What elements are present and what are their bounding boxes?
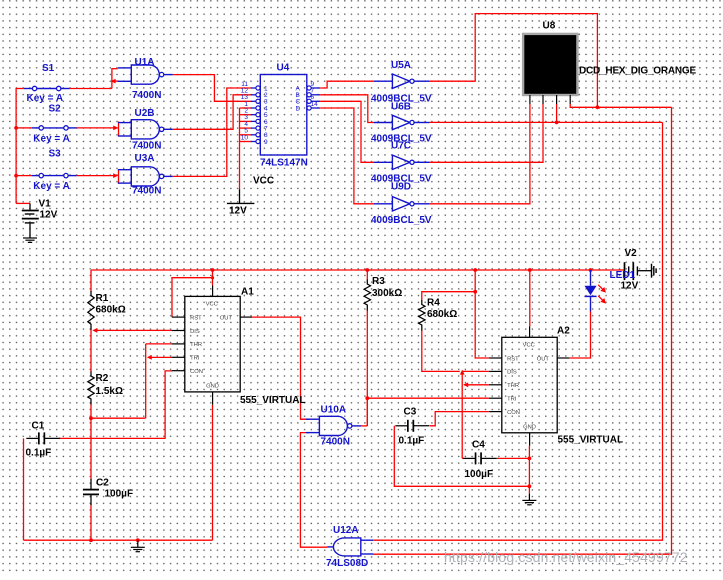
svg-text:7400N: 7400N — [321, 437, 350, 448]
wire A2 CON to C3 — [429, 412, 488, 426]
junction U10A out R3 TRI — [365, 396, 369, 400]
label V1 — [39, 199, 52, 210]
junction rail A2 VCC — [528, 268, 532, 272]
label R3 300k — [372, 288, 402, 299]
svg-text:CON: CON — [507, 410, 520, 416]
wire U1A output to U4 pin3 — [173, 75, 251, 102]
nand gate U10A — [306, 416, 361, 435]
wire R3 bottom to U10A out — [360, 310, 367, 426]
label R4 — [427, 298, 440, 309]
svg-text:TRI: TRI — [507, 397, 517, 403]
inverter U6B — [374, 115, 430, 129]
svg-text:100µF: 100µF — [465, 469, 494, 480]
svg-text:https://blog.csdn.net/weixin_4: https://blog.csdn.net/weixin_45499772 — [444, 549, 688, 565]
inverter U7C — [374, 155, 430, 169]
junction S2 on left bus — [14, 126, 18, 130]
label U8 — [543, 21, 556, 32]
U4 inner pin names — [264, 85, 301, 145]
wire A2 GND down — [528, 446, 530, 494]
arrow A1 DIS junction — [92, 328, 97, 333]
svg-text:680kΩ: 680kΩ — [96, 305, 126, 316]
label C1 0.1uF — [26, 448, 52, 459]
resistor R4 — [419, 300, 425, 331]
label C4 100uF — [465, 469, 494, 480]
svg-text:74LS08D: 74LS08D — [326, 558, 368, 569]
switch S1 — [24, 86, 70, 90]
watermark — [444, 549, 688, 565]
wire VCC rail — [91, 269, 625, 271]
wire right bus B down — [373, 107, 671, 554]
svg-text:12V: 12V — [40, 210, 58, 221]
svg-text:R4: R4 — [427, 298, 440, 309]
junction S3 on left bus — [14, 174, 18, 178]
label R3 — [372, 276, 385, 287]
wire U9D output to U8 pin1 — [430, 104, 530, 204]
label U10A — [321, 405, 347, 416]
label C3 0.1uF — [399, 436, 425, 447]
wire U8 pin1 lead — [556, 104, 558, 122]
label C4 — [472, 440, 485, 451]
U8 pins — [530, 95, 570, 104]
IC A2 555 timer body — [489, 326, 569, 445]
ground below bottom loop — [131, 540, 145, 552]
svg-text:LED1: LED1 — [610, 270, 636, 281]
junction rail R3 — [365, 268, 369, 272]
wire U1A input tie — [112, 68, 119, 88]
svg-text:A1: A1 — [241, 287, 254, 298]
nand gate U2B — [118, 120, 173, 139]
svg-text:S1: S1 — [42, 63, 55, 74]
svg-text:U10A: U10A — [321, 405, 347, 416]
svg-text:680kΩ: 680kΩ — [427, 309, 457, 320]
junction rail A1 VCC — [211, 268, 215, 272]
nand gate U1A — [118, 65, 173, 84]
wire A2 DIS THR vertical — [461, 371, 463, 458]
label R4 680k — [427, 309, 457, 320]
svg-text:U5A: U5A — [391, 60, 411, 71]
label Key = A (S3) — [33, 181, 70, 192]
wire A1 RST loop — [172, 278, 213, 317]
svg-text:V1: V1 — [39, 199, 52, 210]
wire U10A out riser — [366, 398, 368, 426]
label R2 — [96, 373, 109, 384]
wire U4 C output to U7C — [320, 101, 374, 162]
label U1A — [135, 57, 155, 68]
resistor R2 — [88, 372, 94, 405]
label C1 — [32, 421, 45, 432]
power VCC symbol — [227, 189, 255, 203]
wire S2 row — [16, 127, 116, 129]
display U8 DCD_HEX_DIG_ORANGE — [523, 34, 577, 95]
wire R2-THR link — [91, 344, 172, 418]
svg-text:1.5kΩ: 1.5kΩ — [96, 386, 123, 397]
label U7C — [391, 141, 411, 152]
label U2B 7400N — [132, 141, 161, 152]
inverter U5A — [374, 74, 430, 88]
svg-text:U7C: U7C — [391, 141, 411, 152]
wire U4 B output to U6B — [320, 95, 374, 123]
label S2 — [49, 104, 62, 115]
label R1 — [96, 293, 109, 304]
svg-text:D: D — [296, 105, 301, 112]
wire A2 DIS — [462, 370, 489, 372]
wire U10A in1 stub — [301, 418, 310, 420]
wire S1-S2-S3 left vertical bus to V1 — [16, 88, 30, 203]
label V1 12V — [40, 210, 58, 221]
LED1 emission arrows — [598, 285, 606, 304]
label C2 100uF — [105, 489, 134, 500]
label U12A 74LS08D — [326, 558, 368, 569]
junction U8 pin4 net with U5A wire — [596, 105, 600, 109]
junction U8 pin3 net — [555, 121, 559, 125]
svg-text:C4: C4 — [472, 440, 485, 451]
ground right of V2 — [652, 264, 657, 278]
label V2 12V — [621, 281, 639, 292]
label U6B — [391, 102, 411, 113]
label U5A 4009BCL_5V — [371, 94, 432, 105]
svg-text:74LS147N: 74LS147N — [260, 158, 308, 169]
svg-text:7400N: 7400N — [132, 141, 161, 152]
nand gate U3A — [118, 167, 173, 186]
label U4 74LS147N — [260, 158, 308, 169]
wire U4 pins4-9 bus to VCC — [240, 108, 251, 189]
wire A1 TRI — [148, 356, 172, 358]
label U10A 7400N — [321, 437, 350, 448]
arrow U3A input junction — [113, 173, 118, 178]
wire A2 RST riser — [475, 270, 489, 358]
inverter U9D — [374, 197, 430, 211]
arrow U2B input junction — [113, 126, 118, 131]
label U9D — [391, 182, 411, 193]
capacitor C1 — [26, 432, 60, 444]
label Key = A (S2) — [33, 134, 70, 145]
label A2 — [557, 326, 570, 337]
junction rail A2 RST riser — [473, 268, 477, 272]
arrow U1A input junction — [111, 79, 116, 84]
svg-text:R3: R3 — [372, 276, 385, 287]
diode LED1 — [585, 270, 597, 312]
svg-text:THR: THR — [190, 342, 202, 348]
label R1 680k — [96, 305, 126, 316]
svg-text:U1A: U1A — [135, 57, 155, 68]
switch S3 — [32, 173, 77, 177]
wire C4 right link — [497, 457, 530, 459]
wire U3A output to U4 pin1 — [173, 88, 251, 176]
wire A2 VCC riser — [529, 270, 531, 326]
capacitor C3 — [395, 420, 429, 432]
svg-text:CON: CON — [190, 369, 203, 375]
label R2 1.5k — [96, 386, 123, 397]
junction C4 ground link — [528, 457, 532, 461]
wire C3 left down — [394, 426, 529, 487]
svg-text:12V: 12V — [621, 281, 639, 292]
label U3A 7400N — [132, 186, 161, 197]
svg-text:V2: V2 — [625, 248, 638, 259]
label U6B 4009BCL_5V — [371, 134, 432, 145]
arrow A2 DIS junction — [460, 370, 465, 375]
svg-text:C3: C3 — [404, 407, 417, 418]
svg-text:RST: RST — [190, 315, 202, 321]
wire C4 left link — [462, 457, 464, 459]
wire A1 CON to C1 — [59, 371, 172, 439]
svg-text:DIS: DIS — [190, 329, 200, 335]
wire U7C output to U8 pin2 — [430, 104, 543, 162]
label Key = A (S1) — [27, 93, 64, 104]
svg-text:RST: RST — [507, 356, 519, 362]
label U5A — [391, 60, 411, 71]
svg-text:C2: C2 — [96, 478, 109, 489]
svg-text:U9D: U9D — [391, 182, 411, 193]
junction rail LED — [589, 268, 593, 272]
label VCC 12V — [229, 206, 247, 217]
svg-text:U2B: U2B — [135, 108, 155, 119]
resistor R1 — [88, 291, 94, 330]
ground below A2 — [522, 494, 536, 505]
svg-text:S2: S2 — [49, 104, 62, 115]
wire U2B input tie — [118, 122, 120, 137]
wire U5A output over U8 — [430, 14, 598, 108]
svg-text:555_VIRTUAL: 555_VIRTUAL — [558, 435, 624, 446]
junction A1 RST VCC — [211, 276, 214, 279]
wire A2 OUT to LED — [569, 312, 591, 359]
wire S1 row — [16, 88, 112, 90]
svg-text:4009BCL_5V: 4009BCL_5V — [371, 215, 432, 226]
battery V2 — [625, 262, 652, 280]
svg-text:U6B: U6B — [391, 102, 411, 113]
svg-text:Key = A: Key = A — [33, 134, 70, 145]
svg-text:7400N: 7400N — [132, 90, 161, 101]
label V2 — [625, 248, 638, 259]
svg-text:DIS: DIS — [507, 370, 517, 376]
label C3 — [404, 407, 417, 418]
wire A1 VCC riser — [212, 270, 214, 285]
wire U2B output to U4 pin2 — [173, 95, 251, 130]
label VCC — [253, 176, 274, 187]
battery V1 — [22, 203, 39, 238]
label DCD_HEX_DIG_ORANGE — [579, 66, 697, 77]
label S1 — [42, 63, 55, 74]
label S3 — [49, 149, 62, 160]
wire right bus A down — [373, 122, 662, 540]
wire U6B output to U8 pin3 and right bus — [430, 121, 663, 123]
svg-text:14: 14 — [311, 101, 319, 108]
svg-text:VCC: VCC — [206, 301, 218, 307]
label U3A — [135, 153, 155, 164]
capacitor C2 — [83, 479, 99, 505]
svg-text:GND: GND — [206, 383, 219, 389]
wire U12A out to U10A in2 — [300, 433, 327, 548]
svg-text:S3: S3 — [49, 149, 62, 160]
label A2 555_VIRTUAL — [558, 435, 624, 446]
wire R4 bottom to A2 DIS — [422, 330, 460, 371]
svg-text:555_VIRTUAL: 555_VIRTUAL — [240, 395, 306, 406]
svg-text:10: 10 — [241, 134, 249, 141]
wire U3A input tie — [118, 169, 120, 184]
label C2 — [96, 478, 109, 489]
ground below V1 — [23, 238, 37, 242]
svg-text:VCC: VCC — [253, 176, 274, 187]
label U1A 7400N — [132, 90, 161, 101]
svg-text:U4: U4 — [277, 63, 290, 74]
wire R4 top link — [422, 292, 475, 301]
wire bottom loop — [24, 539, 213, 541]
wire R2 bottom to C2 to bottom wire — [90, 404, 92, 540]
svg-text:Key = A: Key = A — [27, 93, 64, 104]
svg-text:C1: C1 — [32, 421, 45, 432]
wire U4 A output to U5A — [320, 81, 374, 88]
svg-text:OUT: OUT — [537, 356, 550, 362]
arrow A2 THR junction — [463, 382, 468, 387]
label U4 — [277, 63, 290, 74]
junction R4 top on RST riser — [473, 290, 477, 294]
svg-text:TRI: TRI — [190, 356, 200, 362]
wire A1 DIS — [96, 329, 172, 331]
wire R1 top lead — [90, 270, 92, 292]
junction C3 ground link — [528, 484, 532, 488]
label A1 — [241, 287, 254, 298]
svg-text:0.1µF: 0.1µF — [399, 436, 425, 447]
svg-text:DCD_HEX_DIG_ORANGE: DCD_HEX_DIG_ORANGE — [579, 66, 697, 77]
svg-text:100µF: 100µF — [105, 489, 134, 500]
IC A1 555 timer body — [172, 285, 252, 404]
svg-text:U8: U8 — [543, 21, 556, 32]
svg-text:THR: THR — [507, 383, 519, 389]
label U7C 4009BCL_5V — [371, 174, 432, 185]
wire TRI line to A2 — [367, 397, 489, 399]
svg-text:7400N: 7400N — [132, 186, 161, 197]
label A1 555_VIRTUAL — [240, 395, 306, 406]
wire A1 GND down — [212, 405, 214, 540]
svg-text:OUT: OUT — [220, 315, 233, 321]
svg-text:0.1µF: 0.1µF — [26, 448, 52, 459]
wire C1 left down — [23, 438, 25, 540]
wire U4 D output to U9D — [320, 108, 374, 204]
arrow A1 TRI junction — [147, 355, 152, 360]
capacitor C4 — [463, 452, 497, 464]
wire A2 THR — [464, 384, 489, 386]
and gate U12A — [327, 538, 373, 556]
label U12A — [333, 525, 359, 536]
svg-text:R1: R1 — [96, 293, 109, 304]
wire A1 OUT to U10A in1 — [252, 317, 309, 419]
svg-text:Key = A: Key = A — [33, 181, 70, 192]
junction C2 bottom — [89, 538, 93, 542]
U4 outer pin numbers — [241, 81, 318, 142]
svg-text:U12A: U12A — [333, 525, 359, 536]
resistor R3 — [364, 280, 370, 311]
label LED1 — [610, 270, 636, 281]
svg-text:A2: A2 — [557, 326, 570, 337]
svg-text:GND: GND — [523, 424, 536, 430]
junction R2 bottom THR tee — [89, 416, 93, 420]
svg-text:U3A: U3A — [135, 153, 155, 164]
wire S3 row — [16, 175, 116, 177]
switch S2 — [32, 126, 77, 130]
wire U8 pin4 net to right bus — [570, 104, 671, 107]
svg-text:12V: 12V — [229, 206, 247, 217]
IC U4 74LS147N body — [251, 75, 320, 156]
junction ground tee bottom loop — [136, 538, 140, 542]
wire R1-R2-DIS junction — [90, 329, 92, 372]
svg-text:300kΩ: 300kΩ — [372, 288, 402, 299]
svg-text:9: 9 — [264, 139, 268, 146]
label U2B — [135, 108, 155, 119]
svg-text:VCC: VCC — [523, 342, 535, 348]
wire R3 top — [366, 270, 368, 280]
label U9D 4009BCL_5V — [371, 215, 432, 226]
svg-text:R2: R2 — [96, 373, 109, 384]
